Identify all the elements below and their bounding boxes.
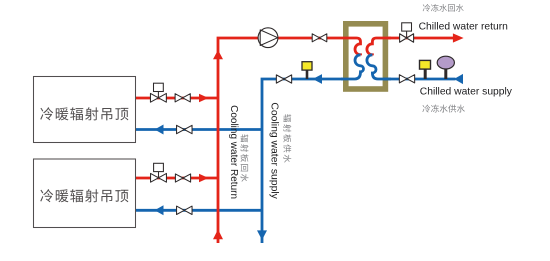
arrow: upward flow near top of red riser [213,50,223,59]
svg-text:Chilled water supply: Chilled water supply [420,86,513,97]
heat exchanger HX1 left coil cold side [341,55,364,79]
wire: red radiant-return branch from box B1 [136,97,218,100]
sensor S3 purple gauge on chilled water supply [437,56,454,79]
control valve CV1 with actuator on box B1 red branch [150,83,166,102]
arrow: downward flow near bottom of blue riser [257,230,267,240]
label: box B1 冷暖辐射吊顶 [40,107,128,120]
arrow: chilled water supply flow left into heat exchanger [454,74,463,84]
heat exchanger HX1 right coil hot side [367,38,391,55]
wire: red radiant-return branch from box B2 [136,177,218,180]
box B2 radiant ceiling panel [34,159,136,228]
label: 冷冻水供水 bottom right [422,105,464,113]
pump P1 on red header [258,28,278,48]
wire: blue radiant-supply branch to box B2 [136,209,262,212]
valve V2 on blue header left of heat exchanger [276,75,291,83]
wire: blue radiant-supply branch to box B1 [136,128,262,131]
arrow: chilled water return flow right [453,33,464,42]
svg-text:Cooling water supply: Cooling water supply [269,102,280,199]
arrow: leftward flow on blue header after heat exchanger [313,74,322,84]
label: Cooling water supply (rotated) [269,102,280,199]
control valve CV3 with actuator on chilled water return [400,23,414,42]
wire: red cooling-water-return riser and top header to heat exchanger [218,38,341,243]
box B1 radiant ceiling panel [34,77,136,143]
wire: blue cooling-water-supply header from heat exchanger and riser [262,79,343,243]
wire: blue chilled-water-supply line on the right [383,78,456,81]
valve V4 on box B1 red branch [175,94,190,102]
arrow: flow right on box B1 red branch [199,94,209,103]
valve V6 on box B2 red branch [175,174,190,182]
control valve CV2 with actuator on box B2 red branch [151,163,167,182]
arrow: upward flow near bottom of red riser [213,229,223,239]
wire: red chilled-water-return line to the right [388,37,454,40]
valve V1 on red header before heat exchanger [312,34,327,42]
heat exchanger HX1 right coil cold side [367,55,391,79]
svg-text:Chilled water return: Chilled water return [419,22,509,33]
arrow: flow right on box B2 red branch [199,174,209,183]
valve V5 on box B1 blue branch [177,125,193,133]
label: box B2 冷暖辐射吊顶 [40,189,128,202]
svg-text:Cooling water Return: Cooling water Return [228,105,239,199]
valve V3 on chilled water supply [399,75,414,83]
label: 冷冻水回水 top right [423,4,464,12]
sensor S1 yellow on blue header [302,62,312,79]
label: 辐射板供水 (rotated) [283,114,291,162]
heat exchanger HX1 frame [346,24,386,89]
valve V7 on box B2 blue branch [177,206,193,214]
heat exchanger HX1 left coil hot side [341,38,361,55]
arrow: flow left into box B1 on blue branch [155,125,164,135]
label: 辐射板回水 (rotated) [241,134,249,181]
arrow: flow left into box B2 on blue branch [155,205,164,215]
label: Cooling water Return (rotated) [228,105,239,199]
sensor S2 yellow on chilled water supply [420,60,431,79]
